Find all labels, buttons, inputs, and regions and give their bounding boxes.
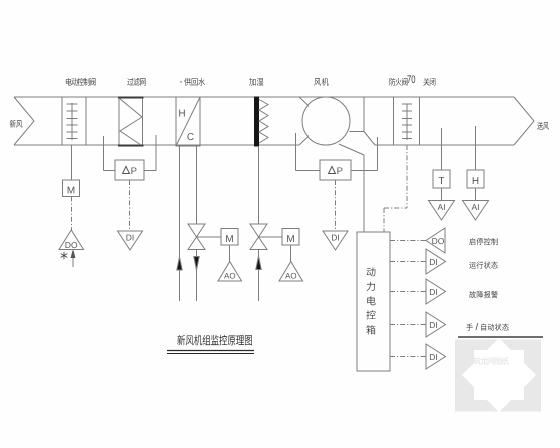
- AI1 point triangle: [429, 201, 455, 221]
- humidifier pipe flow arrow: [256, 256, 261, 270]
- DO feed arrow: [71, 251, 75, 268]
- wire T to AI1: [441, 188, 443, 201]
- return pipe flow arrow: [177, 257, 182, 270]
- fan section divider: [363, 97, 365, 132]
- DI5 hand-auto point triangle: [426, 312, 446, 337]
- humidifier water pipe upper: [258, 146, 260, 224]
- valve actuator M1: [221, 229, 238, 246]
- filter frame: [118, 97, 144, 146]
- filter dP sensor box: [115, 160, 144, 180]
- coil frame: [176, 97, 200, 146]
- DI6 spare point triangle: [426, 344, 446, 369]
- fan dP sensor box: [320, 160, 351, 180]
- fan outlet diffuser diagonal: [364, 132, 375, 146]
- motor damper: [67, 103, 78, 140]
- filter DI point triangle: [118, 231, 143, 250]
- humidifier spray zigzag: [259, 100, 268, 144]
- AO1 point triangle: [218, 262, 242, 282]
- label hand-auto status: [466, 323, 508, 331]
- label fan: [314, 78, 328, 86]
- DO2 point triangle start-stop: [426, 228, 445, 253]
- AO2 point triangle: [279, 262, 303, 282]
- label filter: [127, 78, 145, 86]
- DI4 fault alarm point triangle: [426, 279, 446, 304]
- fan dP tap left: [296, 133, 321, 171]
- coil label C: [187, 133, 193, 140]
- fire damper section left divider: [393, 97, 395, 145]
- humidity sensor probe: [475, 126, 477, 170]
- humidifier valve V2: [250, 224, 267, 250]
- coil valve V1: [188, 224, 205, 250]
- humidifier plate: [255, 97, 259, 146]
- fan outlet top edge: [350, 131, 365, 133]
- label motor damper: [66, 78, 96, 86]
- DO point triangle: [59, 230, 84, 250]
- cabinet vertical label: [366, 267, 375, 334]
- wire valve V1 to actuator M1: [197, 236, 222, 238]
- wire valve V2 to actuator M2: [259, 236, 283, 238]
- wire fire damper to cabinet (dash-dot): [384, 145, 407, 232]
- label running status: [469, 261, 497, 268]
- supply water pipe upper: [196, 146, 198, 224]
- wire cabinet to DI5 (dash-dot): [390, 324, 426, 326]
- filter zigzag media: [119, 98, 142, 145]
- wire M to DO (dash-dot): [71, 197, 73, 231]
- coil diagonal: [176, 97, 200, 146]
- label fire damper 70C close: [390, 75, 436, 85]
- AI2 point triangle: [463, 201, 489, 221]
- wire M2 to AO2: [290, 245, 292, 262]
- fresh air inlet chevron: [14, 97, 34, 145]
- fan dP tap right: [351, 137, 378, 171]
- humidifier pipe lower: [258, 250, 260, 302]
- fan DI point triangle: [323, 231, 348, 250]
- damper section left divider: [61, 97, 63, 145]
- supply water pipe lower: [196, 250, 198, 302]
- label supply-return water: [180, 78, 205, 86]
- label fresh air: [10, 120, 23, 128]
- fan scroll circle: [302, 97, 350, 145]
- wire cabinet to DI3 (dash-dot): [390, 261, 426, 263]
- duct bottom wall left segment: [14, 144, 299, 146]
- wire cabinet to DI4 (dash-dot): [390, 291, 426, 293]
- temperature sensor T: [433, 170, 450, 188]
- duct top wall: [14, 96, 514, 98]
- faint watermark band: [4, 2, 560, 50]
- power control cabinet: [357, 232, 390, 371]
- duct bottom wall right segment: [375, 144, 514, 146]
- wire filter dP to DI (dash-dot): [129, 180, 131, 231]
- wire cabinet to DO2 (dash-dot): [390, 240, 426, 242]
- fan inlet cone top: [299, 97, 309, 107]
- damper section right divider: [85, 97, 87, 145]
- watermark top rule: [458, 336, 543, 338]
- label fault alarm: [469, 291, 497, 298]
- wire M1 to AO1: [229, 245, 231, 262]
- filter dP tap left: [104, 136, 116, 171]
- watermark faint text: [473, 357, 508, 364]
- wire fan to power cabinet: [339, 144, 364, 232]
- label humidifier: [249, 78, 263, 86]
- valve actuator M2: [282, 229, 299, 246]
- damper actuator M: [63, 180, 80, 197]
- title underline double: [167, 351, 254, 354]
- coil label H: [179, 110, 185, 117]
- drawing title: [177, 335, 252, 346]
- wire fan dP to DI (dash-dot): [335, 180, 337, 231]
- filter dP tap right: [144, 135, 156, 171]
- asterisk mark: [61, 252, 68, 260]
- fan inlet cone bottom: [299, 136, 309, 146]
- fire damper blades: [402, 104, 412, 141]
- wire H to AI2: [475, 188, 477, 201]
- temperature sensor probe: [441, 128, 443, 170]
- humidity sensor H: [467, 170, 484, 188]
- supply pipe flow arrow: [194, 257, 199, 271]
- fire damper section right divider: [419, 97, 421, 145]
- return water pipe: [179, 146, 181, 301]
- wire cabinet to DI6 (dash-dot): [390, 356, 426, 358]
- wire damper to actuator M: [71, 145, 73, 180]
- supply air outlet arrow: [514, 97, 534, 145]
- watermark gray plate: [455, 340, 541, 412]
- label supply air: [537, 122, 549, 130]
- DI3 run status point triangle: [426, 249, 446, 274]
- label start-stop control: [469, 238, 497, 245]
